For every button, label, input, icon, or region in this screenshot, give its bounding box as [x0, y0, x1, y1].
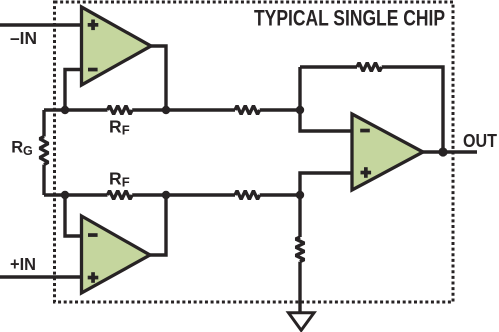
output node junction dot	[438, 147, 447, 156]
node B' junction dot	[162, 191, 170, 199]
node C junction dot	[296, 106, 304, 114]
resistor (subtractor, top)	[235, 106, 260, 115]
svg-text:F: F	[122, 175, 130, 190]
wire: A1 output to node B	[151, 46, 166, 110]
wire: RG bottom elbow	[42, 165, 45, 195]
svg-text:+IN: +IN	[10, 254, 36, 274]
op-amp A2 - pin label	[88, 233, 98, 237]
wire: node D vertical to A3 non-inverting input	[300, 173, 352, 195]
wire: A2 output to node B'	[150, 195, 166, 255]
resistor RG	[40, 137, 49, 165]
wire: node A' horizontal segment y=195	[44, 193, 108, 196]
svg-text:–IN: –IN	[10, 28, 37, 48]
resistor RF (bottom)	[108, 191, 133, 200]
value label RG	[11, 139, 33, 158]
wire: A3 feedback right segment down to output	[382, 67, 443, 152]
wire: RG left branch top elbow	[42, 110, 45, 137]
op-amp A1 (top input amplifier)	[82, 7, 152, 85]
op-amp A3 (output subtractor amplifier)	[352, 114, 423, 190]
op-amp A3 + pin label	[361, 167, 372, 178]
wire: A3 feedback top left segment	[300, 65, 357, 68]
wire: node D down to ground resistor	[298, 195, 301, 237]
wire: A1 inverting input from node A	[65, 70, 82, 111]
wire: RF bottom to subtractor resistor	[132, 193, 235, 196]
ground	[289, 313, 315, 331]
node A junction dot	[61, 106, 69, 114]
chip boundary dashed border	[55, 2, 454, 302]
svg-text:R: R	[11, 139, 23, 157]
wire: +IN input to A2 +	[0, 275, 82, 278]
svg-text:TYPICAL SINGLE CHIP: TYPICAL SINGLE CHIP	[254, 5, 445, 30]
svg-text:G: G	[23, 144, 33, 158]
resistor (reference, to ground)	[296, 237, 305, 262]
wire: to node D	[260, 193, 300, 196]
wire: RF top to subtractor resistor	[132, 108, 235, 111]
value label RF (bottom)	[109, 169, 130, 190]
node B junction dot	[162, 106, 170, 114]
svg-text:OUT: OUT	[463, 130, 498, 151]
svg-text:R: R	[109, 169, 122, 189]
op-amp A1 + pin label	[88, 20, 99, 31]
node A' junction dot	[61, 191, 69, 199]
node D junction dot	[296, 191, 304, 199]
wire: A3 output to OUT	[423, 150, 477, 153]
resistor RF (top)	[108, 106, 133, 115]
wire: A2 inverting input from node A'	[65, 195, 82, 236]
op-amp A2 (bottom input amplifier)	[82, 216, 151, 293]
value label RF (top)	[109, 117, 130, 138]
svg-text:R: R	[109, 117, 122, 137]
wire: -IN input to A1 +	[0, 23, 82, 26]
op-amp A3 - pin label	[360, 129, 370, 133]
resistor (A3 feedback)	[357, 63, 382, 72]
op-amp A1 - pin label	[88, 68, 98, 72]
svg-text:F: F	[122, 123, 130, 138]
resistor (subtractor, bottom)	[235, 191, 260, 200]
wire: node A horizontal segment y=110	[44, 108, 108, 111]
wire: resistor to ground symbol	[298, 262, 301, 312]
op-amp A2 + pin label	[88, 272, 99, 283]
wire: node C vertical to A3 inverting input	[300, 67, 352, 131]
wire: to node C	[260, 108, 300, 111]
